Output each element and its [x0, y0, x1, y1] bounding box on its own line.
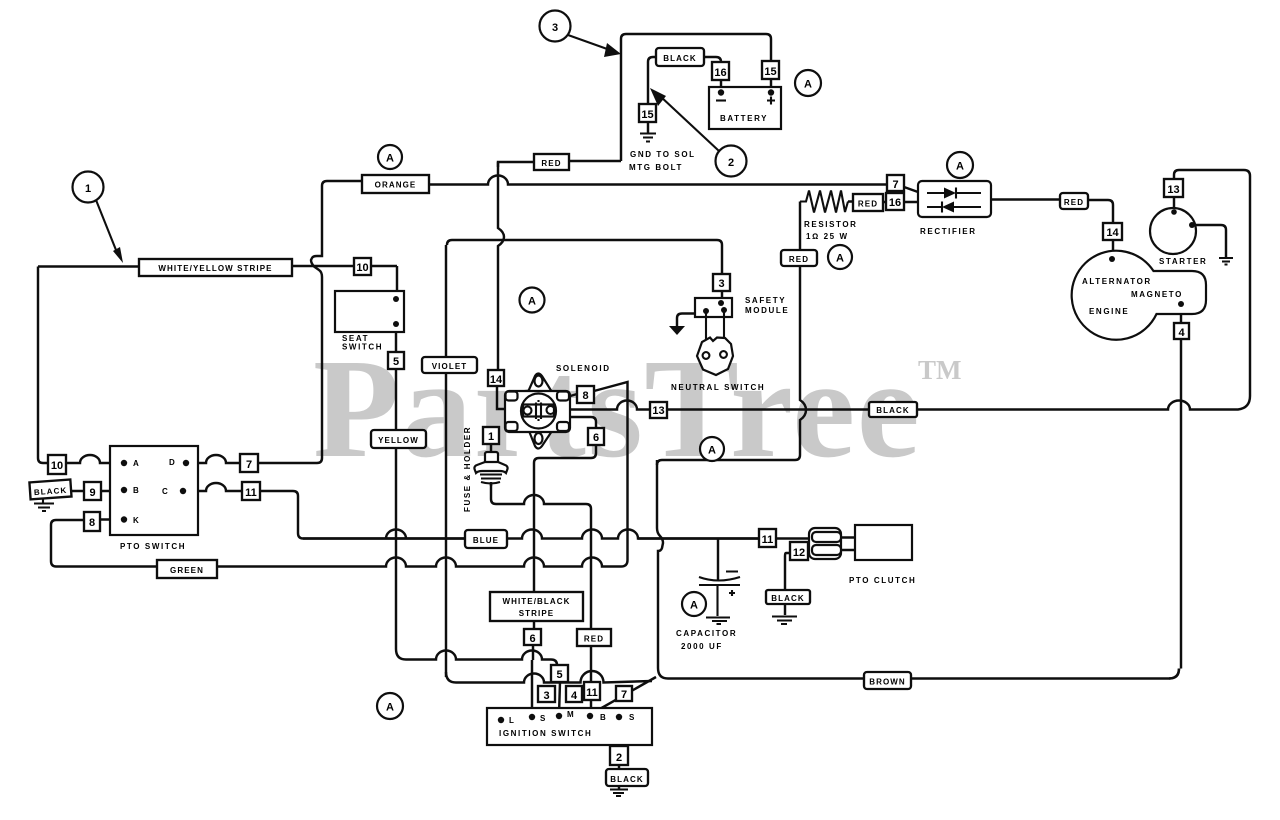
svg-text:5: 5 — [556, 669, 562, 681]
svg-text:B: B — [133, 486, 140, 495]
svg-text:ALTERNATOR: ALTERNATOR — [1082, 277, 1152, 286]
label blue — [465, 530, 507, 548]
neutral switch SW3 body — [697, 338, 733, 376]
svg-text:A: A — [708, 445, 716, 457]
capacitor C 2000uF plates — [699, 572, 740, 617]
svg-text:A: A — [386, 702, 394, 714]
wire row1 (yellow feed to ignition M) — [396, 649, 560, 715]
ref circle A orange — [378, 145, 402, 169]
svg-text:5: 5 — [393, 356, 399, 368]
callout 1 arrow — [96, 200, 118, 255]
wire alternator magneto to node4 down to brown corner — [1169, 306, 1181, 679]
tag 13 starter — [1164, 179, 1183, 197]
label black ignition — [606, 769, 648, 786]
svg-text:7: 7 — [621, 689, 627, 701]
tag 13 neutral — [650, 402, 667, 418]
svg-text:RED: RED — [789, 255, 809, 264]
svg-text:L: L — [509, 716, 516, 725]
label black battery — [656, 48, 704, 66]
wire red top (battery loop left) — [498, 161, 621, 167]
wire starter right to ground — [1196, 225, 1226, 257]
tag 6 solenoid — [588, 428, 604, 445]
svg-text:A: A — [133, 459, 140, 468]
label red top — [534, 154, 569, 170]
wire fuse bottom jog to x592 drop — [491, 484, 591, 509]
svg-text:IGNITION SWITCH: IGNITION SWITCH — [499, 729, 592, 738]
svg-text:3: 3 — [543, 690, 549, 702]
svg-text:4: 4 — [571, 690, 578, 702]
wire PTO B black ground stub — [71, 490, 124, 492]
svg-text:VIOLET: VIOLET — [432, 362, 468, 371]
svg-text:10: 10 — [356, 262, 368, 274]
ref circle A battery — [795, 70, 821, 96]
tag 16 battery — [712, 62, 729, 80]
wire starter top loop — [1174, 170, 1250, 210]
rectifier D1 body — [918, 181, 991, 217]
tag 8 solenoid — [577, 386, 594, 403]
label red ignition — [577, 629, 611, 646]
svg-text:13: 13 — [1167, 184, 1179, 196]
svg-text:3: 3 — [718, 278, 724, 290]
svg-text:1: 1 — [488, 431, 494, 443]
wire node 7 up to orange corner — [258, 181, 362, 463]
wire h460 (safety module row) — [657, 455, 800, 465]
svg-text:RED: RED — [858, 200, 878, 209]
wire rectifier to red to node14 alternator — [991, 200, 1113, 258]
svg-text:BLUE: BLUE — [473, 536, 499, 545]
svg-text:A: A — [690, 600, 698, 612]
tag 15 gnd — [639, 104, 656, 122]
wire blue row through x657 junction — [638, 537, 759, 539]
ref circle A resistor — [828, 245, 852, 269]
wire violet vertical — [446, 240, 452, 677]
wire node7 to rectifier diagonal — [904, 187, 918, 192]
ref circle A solenoid — [520, 288, 545, 313]
svg-text:STRIPE: STRIPE — [519, 609, 555, 618]
wire x592 vertical drop to ignition B — [590, 509, 592, 714]
svg-text:S: S — [540, 714, 547, 723]
label black clutch — [766, 590, 810, 604]
callout 2 arrow — [660, 96, 719, 151]
svg-text:ENGINE: ENGINE — [1089, 307, 1129, 316]
svg-text:BROWN: BROWN — [869, 678, 906, 687]
battery BT1 body — [709, 87, 781, 129]
svg-text:BLACK: BLACK — [876, 406, 910, 415]
svg-text:4: 4 — [1178, 327, 1185, 339]
tag 7 ignition — [616, 686, 632, 701]
label violet — [422, 357, 477, 373]
svg-text:1Ω 25 W: 1Ω 25 W — [806, 232, 849, 241]
svg-text:15: 15 — [641, 109, 653, 121]
tag 10 top — [354, 258, 371, 275]
wire safety module ground arm with arrow — [677, 314, 695, 327]
label red resistor — [853, 194, 883, 211]
svg-text:14: 14 — [490, 374, 503, 386]
seat switch SW2 body — [335, 291, 404, 332]
svg-text:MODULE: MODULE — [745, 306, 789, 315]
wire PTO clutch node12 to black ground — [785, 553, 790, 615]
svg-text:FUSE & HOLDER: FUSE & HOLDER — [463, 426, 472, 512]
ref circle A capacitor — [682, 592, 706, 616]
svg-text:10: 10 — [51, 460, 63, 472]
wire black battery jumper — [648, 57, 721, 133]
callout circle 3 — [540, 11, 571, 42]
svg-text:11: 11 — [762, 534, 774, 546]
svg-text:RESISTOR: RESISTOR — [804, 220, 858, 229]
svg-text:2: 2 — [728, 157, 734, 169]
label green — [157, 560, 217, 578]
svg-text:S: S — [629, 713, 636, 722]
tag 6 ignition — [524, 629, 541, 645]
svg-text:A: A — [528, 296, 536, 308]
svg-text:K: K — [133, 516, 140, 525]
resistor R (1 ohm 25W) zigzag — [800, 191, 848, 213]
tag 7 left — [240, 454, 258, 472]
wire ignition S to node2 black ground — [618, 719, 620, 789]
svg-text:MAGNETO: MAGNETO — [1131, 290, 1183, 299]
svg-text:A: A — [386, 153, 394, 165]
svg-text:RED: RED — [1064, 198, 1084, 207]
svg-text:A: A — [956, 161, 964, 173]
wire black row solenoid to right side — [566, 176, 1250, 410]
svg-text:8: 8 — [89, 517, 95, 529]
safety module U1 body — [695, 298, 732, 317]
tag 3 safety — [713, 274, 730, 291]
wire seat switch drop from white/yellow — [396, 266, 398, 299]
svg-text:SOLENOID: SOLENOID — [556, 364, 611, 373]
svg-text:RED: RED — [584, 635, 604, 644]
label black row — [869, 402, 917, 417]
label white/yellow stripe — [139, 259, 292, 276]
tag 1 — [483, 427, 499, 444]
ref circle A ignition — [377, 693, 403, 719]
wire PTO D to node 7 with connector hump — [186, 455, 240, 463]
PTO clutch L1 body — [809, 525, 912, 560]
wire white/yellow stripe horizontal — [38, 265, 397, 268]
wire PTO C to node 11 with hump — [183, 483, 242, 491]
label red x800 — [781, 250, 817, 266]
ground below capacitor — [706, 618, 730, 625]
wire brown row — [668, 669, 1179, 679]
svg-text:BLACK: BLACK — [771, 594, 805, 603]
svg-text:7: 7 — [892, 179, 898, 191]
blue row segment left of label — [303, 537, 366, 539]
svg-text:ORANGE: ORANGE — [375, 181, 417, 190]
wire node10 to PTO pin A with connector hump — [66, 455, 124, 463]
svg-text:16: 16 — [889, 197, 901, 209]
svg-text:7: 7 — [246, 459, 252, 471]
tag 11 clutch — [759, 529, 776, 547]
tag 14 alternator — [1103, 223, 1122, 240]
tag 8 left — [84, 512, 100, 531]
svg-text:GREEN: GREEN — [170, 566, 204, 575]
alternator magneto engine M1 body — [1072, 251, 1206, 340]
svg-text:GND TO SOL: GND TO SOL — [630, 150, 696, 159]
svg-text:SAFETY: SAFETY — [745, 296, 786, 305]
wire vertical from red corner to node14 (solenoid) — [497, 162, 505, 409]
svg-text:2000 UF: 2000 UF — [681, 642, 723, 651]
svg-text:12: 12 — [793, 547, 805, 559]
svg-text:BLACK: BLACK — [663, 54, 697, 63]
svg-text:NEUTRAL SWITCH: NEUTRAL SWITCH — [671, 383, 765, 392]
svg-text:C: C — [162, 487, 169, 496]
svg-text:9: 9 — [89, 487, 95, 499]
svg-text:A: A — [804, 79, 812, 91]
ignition switch SW4 body — [487, 708, 652, 745]
wire green loop from PTO K — [51, 520, 628, 567]
wire row2 violet feed to junction — [446, 671, 652, 683]
svg-text:2: 2 — [616, 752, 622, 764]
ground arrow at safety module — [669, 326, 685, 335]
svg-text:6: 6 — [593, 432, 599, 444]
wire solenoid term to node6 and down-left to white/black stripe — [532, 417, 596, 714]
callout circle 1 — [73, 172, 104, 203]
wire node11 to blue row corner — [260, 491, 465, 539]
PTO switch SW1 body — [110, 446, 198, 535]
wire solenoid top right pin to node8 tag — [567, 394, 577, 397]
tag 11 ignition — [584, 682, 600, 700]
tag 15 battery — [762, 61, 779, 79]
svg-text:6: 6 — [529, 633, 535, 645]
ref circle A rectifier — [947, 152, 973, 178]
svg-text:14: 14 — [1106, 227, 1119, 239]
svg-text:PTO CLUTCH: PTO CLUTCH — [849, 576, 916, 585]
svg-text:11: 11 — [586, 687, 598, 699]
wire safety drop x657: from h460 down through blue jog to brown corner — [657, 460, 668, 679]
callout circle 2 — [716, 146, 747, 177]
svg-text:MTG BOLT: MTG BOLT — [629, 163, 683, 172]
wire node1 to fuse — [490, 444, 492, 486]
ground below PTO clutch black label — [772, 617, 797, 625]
wire yellow vertical (seat switch to row1) — [395, 324, 397, 649]
wire battery loop vertical and top — [621, 34, 771, 161]
svg-text:RED: RED — [541, 159, 561, 168]
wire resistor chain to rectifier — [848, 200, 918, 203]
svg-text:8: 8 — [582, 390, 588, 402]
wire orange horizontal long to rectifier node 7 — [429, 176, 887, 185]
ref circle A neutral — [700, 437, 724, 461]
svg-text:B: B — [600, 713, 607, 722]
tag 10 left — [48, 455, 66, 474]
svg-text:STARTER: STARTER — [1159, 257, 1207, 266]
svg-text:TM: TM — [918, 355, 962, 385]
ground at starter — [1219, 258, 1233, 265]
svg-text:16: 16 — [714, 67, 726, 79]
svg-text:YELLOW: YELLOW — [378, 436, 419, 445]
starter M2 body — [1150, 208, 1196, 254]
svg-text:CAPACITOR: CAPACITOR — [676, 629, 737, 638]
svg-text:15: 15 — [764, 66, 776, 78]
svg-text:WHITE/YELLOW STRIPE: WHITE/YELLOW STRIPE — [158, 264, 272, 273]
svg-text:BATTERY: BATTERY — [720, 114, 768, 123]
svg-text:13: 13 — [652, 405, 664, 417]
wire blue row long — [366, 530, 811, 539]
label brown — [864, 672, 911, 689]
label yellow — [371, 430, 426, 448]
svg-text:M: M — [567, 710, 575, 719]
svg-text:11: 11 — [245, 487, 257, 499]
wire green vertical rise x628 to solenoid node8 diagonal — [594, 382, 628, 560]
svg-text:SWITCH: SWITCH — [342, 343, 383, 352]
tag 9 — [84, 482, 101, 500]
capacitor plus sign — [729, 590, 735, 596]
svg-text:D: D — [169, 458, 176, 467]
label white/black stripe — [490, 592, 583, 621]
tag 2 ignition — [610, 746, 628, 765]
fuse and holder F1 — [474, 452, 507, 484]
svg-text:3: 3 — [552, 22, 558, 34]
wire left loop vertical (node 10 side) — [38, 267, 48, 464]
wire safety feed horizontal y240 — [452, 240, 722, 298]
svg-text:RECTIFIER: RECTIFIER — [920, 227, 977, 236]
watermark PartsTree — [313, 329, 962, 487]
tag 3 ignition — [538, 686, 555, 702]
svg-text:WHITE/BLACK: WHITE/BLACK — [502, 597, 570, 606]
tag 5 ignition — [551, 665, 568, 682]
tag 7 rectifier — [887, 175, 904, 191]
tag 14 solenoid — [488, 370, 504, 386]
solenoid K1 body — [505, 374, 570, 449]
tag 4 ignition — [566, 686, 582, 702]
ground below ignition black label — [610, 790, 628, 797]
wire capacitor stub from blue row — [717, 539, 719, 582]
ground below PTO black label — [34, 498, 54, 511]
wire resistor vertical x800 — [800, 202, 806, 456]
svg-text:1: 1 — [85, 183, 91, 195]
wire diagonal junction to ignition B through node7 tag — [591, 677, 656, 714]
label orange — [362, 175, 429, 193]
tag 12 clutch — [790, 542, 808, 560]
tag 11 left — [242, 482, 260, 500]
wire safety module to neutral switch pins — [706, 310, 724, 352]
svg-text:BLACK: BLACK — [610, 775, 644, 784]
tag 16 rectifier — [886, 193, 904, 210]
callout 3 arrow — [568, 35, 610, 50]
svg-text:A: A — [836, 253, 844, 265]
svg-text:PTO SWITCH: PTO SWITCH — [120, 542, 186, 551]
tag 5 seat — [388, 352, 404, 369]
label black PTO switch — [29, 480, 71, 500]
label red alternator — [1060, 193, 1088, 209]
ground below node15 — [640, 134, 656, 142]
tag 4 alternator — [1174, 323, 1189, 339]
